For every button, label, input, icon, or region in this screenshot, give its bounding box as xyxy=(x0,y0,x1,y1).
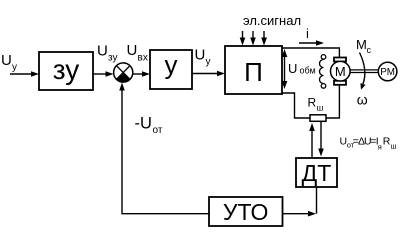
svg-text:эл.сигнал: эл.сигнал xyxy=(243,13,301,28)
wire П bottom to Rш to motor (armature -) xyxy=(282,85,339,118)
double arrow Uобм xyxy=(282,49,288,89)
load РМ (working machine) xyxy=(378,62,397,81)
wire УТО output arrow to ДТ line xyxy=(283,211,317,217)
label Rш xyxy=(308,96,324,113)
arrow current i xyxy=(299,40,324,46)
svg-text:П: П xyxy=(244,57,263,87)
block ЗУ (setting device) xyxy=(39,52,93,90)
svg-text:ш: ш xyxy=(317,103,324,113)
label Uу (amplifier output) xyxy=(195,47,211,68)
svg-text:U: U xyxy=(127,42,138,59)
svg-text:R: R xyxy=(308,96,317,110)
arrow Rш to ДТ (up) xyxy=(309,123,315,157)
arrows эл.сигнал into П xyxy=(240,31,267,46)
block УТО xyxy=(209,197,283,226)
svg-text:у: у xyxy=(206,57,211,68)
wire ZU to summing junction xyxy=(93,71,114,77)
wire П top to motor (armature +) xyxy=(282,48,339,58)
block ДТ (current sensor) xyxy=(296,158,337,187)
motor M brushes xyxy=(334,58,346,85)
svg-text:U: U xyxy=(288,61,297,76)
svg-text:ω: ω xyxy=(357,92,368,108)
shaft motor to RM xyxy=(350,70,378,73)
svg-text:ш: ш xyxy=(391,142,397,151)
wire input arrow into ZU xyxy=(10,71,39,77)
label эл.сигнал xyxy=(243,13,301,28)
svg-text:-U: -U xyxy=(135,115,152,133)
svg-text:зу: зу xyxy=(53,54,80,85)
inductor field winding with terminals xyxy=(320,55,326,89)
label Uзу xyxy=(97,43,117,64)
svg-text:я: я xyxy=(378,143,382,152)
svg-text:вх: вх xyxy=(138,53,148,64)
wire amplifier to converter xyxy=(192,71,225,77)
svg-text:U: U xyxy=(97,43,108,60)
svg-text:U: U xyxy=(195,47,206,64)
wire feedback УТО to summing junction xyxy=(119,83,209,214)
wire summing junction to amplifier xyxy=(133,71,151,77)
block У (amplifier) xyxy=(150,50,192,90)
label -Uот xyxy=(135,115,163,137)
label omega xyxy=(357,92,368,108)
label Mc xyxy=(356,37,372,55)
svg-text:УТО: УТО xyxy=(223,199,269,225)
svg-text:зу: зу xyxy=(108,53,117,64)
block П (converter) xyxy=(225,46,282,94)
svg-text:i: i xyxy=(306,26,309,41)
svg-text:ДТ: ДТ xyxy=(302,160,332,186)
label U обм xyxy=(288,61,316,76)
svg-text:U: U xyxy=(1,52,12,69)
node Uy input label xyxy=(1,52,17,73)
svg-text:обм: обм xyxy=(300,66,316,76)
motor M xyxy=(331,61,351,81)
svg-text:у: у xyxy=(165,50,178,80)
label i xyxy=(306,26,309,41)
svg-text:у: у xyxy=(12,62,17,73)
svg-text:с: с xyxy=(367,45,372,55)
arrow Mc (load torque, curved across shaft) xyxy=(360,53,366,90)
wire ДТ down to junction xyxy=(316,187,318,214)
svg-text:РМ: РМ xyxy=(380,67,395,78)
label Uот=ΔU=IяRш formula xyxy=(340,136,397,152)
svg-text:M: M xyxy=(356,37,367,52)
resistor Rш (shunt) xyxy=(310,115,326,122)
arrow ДТ to Rш (down) xyxy=(318,122,324,157)
summing junction node xyxy=(114,63,133,82)
svg-text:М: М xyxy=(335,64,346,79)
svg-text:от: от xyxy=(153,125,163,136)
label Uвх xyxy=(127,42,148,64)
